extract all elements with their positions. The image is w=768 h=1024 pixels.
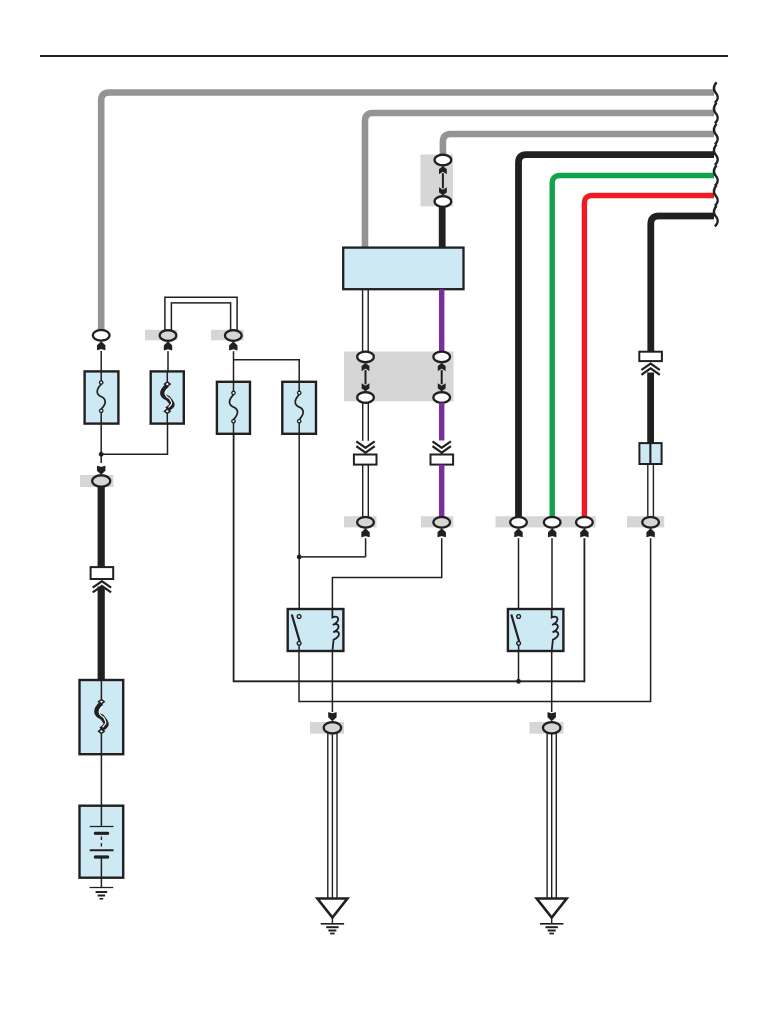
relay 1 switch xyxy=(297,615,301,619)
battery ground symbol xyxy=(90,887,114,889)
fusible link MAIN element xyxy=(97,704,106,730)
junction block J right cell xyxy=(650,443,661,464)
fuse 1 box xyxy=(85,371,119,423)
connector arrow loop right xyxy=(229,341,237,350)
wire break symbol on gray feed 2 xyxy=(714,103,718,124)
connector ellipse loop right xyxy=(225,330,242,341)
connector row highlight band left xyxy=(496,516,596,527)
purple wire below inline connector xyxy=(439,465,444,518)
purple wire main box to block B xyxy=(439,289,444,352)
fusible link 2 box xyxy=(151,371,184,423)
inline connector white box (battery side) xyxy=(91,567,114,579)
fuse 4 interior lead xyxy=(298,382,300,391)
white wire below inline connector xyxy=(362,465,364,518)
connector highlight band battery side xyxy=(80,475,113,487)
connector ellipse loop left xyxy=(160,330,177,341)
battery plate short 1 xyxy=(95,832,107,835)
connector arrow white-wire xyxy=(361,528,369,537)
wire red feed 6 xyxy=(584,196,714,519)
page header rule xyxy=(40,55,728,57)
connector ellipse black feed 4 xyxy=(510,517,527,528)
battery plate short 2 xyxy=(95,855,107,858)
relay 2 coil xyxy=(552,609,559,651)
wire fuse 1 down with fuse 2 join xyxy=(101,424,167,463)
junction dot relay 2 switch on crossover xyxy=(516,679,521,684)
wire purple connector to relay 1 coil xyxy=(332,538,441,609)
ground connector 2 ellipse xyxy=(543,722,560,733)
connector highlight band loop left xyxy=(145,330,177,341)
wire loop left connector to fuse 2 xyxy=(167,351,169,372)
wire feed1 connector to fuse 1 xyxy=(100,351,102,372)
fuse 1 interior lead xyxy=(100,372,102,381)
white wire double chevron into inline connector xyxy=(356,441,374,447)
ground point 2 xyxy=(537,899,567,918)
relay 1 coil xyxy=(332,609,339,651)
junction block J left cell xyxy=(639,443,650,464)
connector ellipse green feed 5 xyxy=(544,517,561,528)
block B right mating arrows xyxy=(438,363,446,371)
arrow into ground connector 2 xyxy=(548,712,556,721)
fuse 3 box xyxy=(217,382,250,434)
connector ellipse feed 7 xyxy=(642,517,659,528)
connector arrow feed 7 xyxy=(646,528,654,537)
ground connector 1 ellipse xyxy=(324,722,341,733)
connector highlight band (purple wire) xyxy=(421,516,453,527)
wire relay 1 coil to ground connector xyxy=(331,651,333,712)
connector arrow green feed 5 xyxy=(548,528,556,537)
fuse 3 element xyxy=(230,395,238,420)
inline connector white box (feed 7) xyxy=(639,352,662,361)
wire break symbol on green feed 5 xyxy=(714,165,718,186)
wire black feed 4 connector to relay 2 switch xyxy=(518,538,520,615)
wire fusible link to battery xyxy=(100,754,102,806)
white wire main box to block B xyxy=(362,289,364,352)
ground shielded wire 1 xyxy=(327,733,329,898)
connector pair A lower ellipse xyxy=(435,196,452,207)
fusible link 2 element xyxy=(163,386,172,410)
connector ellipse gray feed 1 xyxy=(93,330,110,341)
ground point 1 xyxy=(317,899,347,918)
battery internal lead top xyxy=(100,806,102,827)
connector row highlight band right xyxy=(627,516,664,527)
block B right lower ellipse xyxy=(433,392,450,403)
inline connector white box (purple wire) xyxy=(431,455,454,465)
white wire junction block to connector row xyxy=(647,464,649,517)
block B left mating arrows xyxy=(362,363,370,371)
wire black feed 4 xyxy=(519,155,715,518)
block B right upper ellipse xyxy=(433,352,450,363)
battery internal lead bottom xyxy=(100,857,102,878)
block B left lower ellipse xyxy=(357,392,374,403)
ground connector 2 highlight band xyxy=(530,722,564,734)
wire break symbol on black feed 4 xyxy=(714,144,718,165)
junction dot fuse 4 branch xyxy=(297,555,302,560)
relay 1 switch interior lead xyxy=(298,645,300,651)
inline connector white box (white wire) xyxy=(354,455,377,465)
connector arrow loop left xyxy=(164,341,172,350)
fuse 3 interior lead xyxy=(233,382,235,391)
connector arrow black feed 4 xyxy=(514,528,522,537)
ground shielded wire 2 xyxy=(546,733,548,898)
wire fuse 4 down to relay 1 switch xyxy=(298,434,300,615)
wire feed 7 connector crossover to relay 1 switch xyxy=(299,538,651,701)
relay 2 switch xyxy=(517,615,521,619)
wire thick battery side lower xyxy=(98,587,105,682)
ground connector 1 highlight band xyxy=(310,722,344,734)
wire gray feed 3 (to connector pair) xyxy=(443,134,714,157)
battery plate long 2 xyxy=(90,849,114,851)
junction dot fuse join xyxy=(99,452,104,457)
fuse 1 element xyxy=(97,384,105,409)
battery dashed link xyxy=(100,837,102,849)
fusible link 2 interior lead xyxy=(166,372,168,383)
connector pair A mating arrows xyxy=(439,166,447,174)
connector ellipse red feed 6 xyxy=(576,517,593,528)
connector highlight band (white wire) xyxy=(344,516,377,527)
feed 7 double chevron out of connector xyxy=(641,364,659,370)
white wire jumper loop xyxy=(165,297,237,331)
relay 2 switch interior lead xyxy=(518,645,520,651)
wire white-wire connector to fuse branch xyxy=(299,538,365,557)
wire green connector to relay 2 coil xyxy=(551,538,553,609)
relay 2 box xyxy=(508,609,564,651)
connector ellipse purple-wire xyxy=(433,517,450,528)
connector pair A highlight band xyxy=(421,155,454,207)
fuse 4 box xyxy=(282,382,316,434)
purple wire double chevron into inline connector xyxy=(433,441,451,447)
wire break symbol on gray feed 1 xyxy=(714,82,718,103)
connector block B highlight band xyxy=(344,352,454,402)
connector arrow red feed 6 xyxy=(580,528,588,537)
connector pair A upper ellipse xyxy=(435,155,452,166)
wire relay 2 switch to crossover junction xyxy=(518,651,520,681)
wire break symbol on black feed 7 xyxy=(714,206,718,227)
wire battery to ground xyxy=(100,878,102,888)
purple wire block B to inline connector xyxy=(439,403,444,441)
arrow into battery-side connector xyxy=(97,466,105,475)
wire relay 2 coil to ground connector xyxy=(551,651,553,712)
connector ellipse battery side xyxy=(92,475,110,486)
block B left upper ellipse xyxy=(357,352,374,363)
wire red connector crossover to fuse 3 xyxy=(234,434,585,682)
connector arrow gray feed 1 xyxy=(97,341,105,350)
fuse 4 element xyxy=(295,395,303,420)
wire loop right connector to fuse 3 with branch to fuse 4 xyxy=(234,351,300,382)
relay 1 box xyxy=(288,609,344,651)
connector arrow purple-wire xyxy=(438,528,446,537)
battery box xyxy=(80,806,124,878)
arrow into ground connector 1 xyxy=(328,712,336,721)
wire black from pair A to main box xyxy=(439,207,446,249)
fusible link MAIN interior lead xyxy=(100,680,102,700)
wire gray feed 2 (to main box) xyxy=(365,113,714,249)
battery side double chevron xyxy=(93,581,111,587)
wire break symbol on red feed 6 xyxy=(714,185,718,206)
fusible link MAIN box xyxy=(80,680,124,754)
wire break symbol on gray feed 3 xyxy=(714,124,718,145)
wire gray feed 1 (from battery side) xyxy=(101,93,714,331)
wire black feed 7 to junction block xyxy=(647,373,654,445)
connector ellipse white-wire xyxy=(357,517,374,528)
wire green feed 5 xyxy=(552,176,714,519)
battery plate long 1 xyxy=(90,826,114,828)
white wire block B to inline connector xyxy=(362,403,364,441)
main control box xyxy=(343,248,463,290)
wire black feed 7 xyxy=(651,216,714,353)
wire thick battery side upper xyxy=(98,486,105,568)
connector highlight band loop right xyxy=(211,330,244,341)
